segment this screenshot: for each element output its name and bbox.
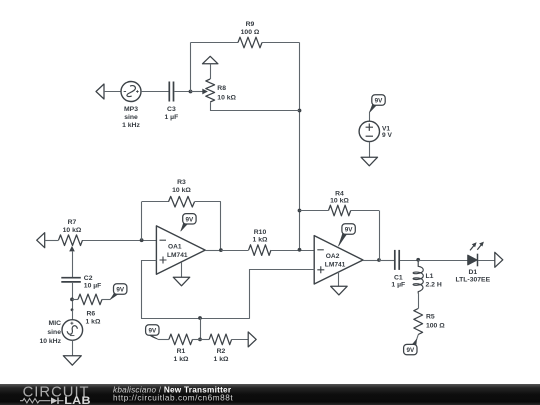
svg-text:LAB: LAB [64, 396, 91, 405]
svg-text:R5: R5 [426, 313, 435, 320]
svg-text:R6: R6 [87, 310, 96, 317]
svg-text:1 kΩ: 1 kΩ [253, 236, 268, 243]
footer bar background [0, 384, 540, 405]
terminal divider right [248, 332, 256, 347]
wire R8 wiper [191, 91, 203, 93]
node I junction R1 R2 [198, 338, 202, 342]
svg-text:R10: R10 [254, 229, 267, 236]
resistor R5 [414, 309, 423, 335]
wire node A up to R9 loop [190, 43, 192, 92]
svg-text:LM741: LM741 [167, 252, 188, 259]
inductor L1 [413, 260, 423, 294]
wire flag to R1 [158, 339, 169, 341]
resistor R10 [249, 245, 271, 256]
wire R7 wiper [72, 252, 74, 278]
svg-text:10 kHz: 10 kHz [39, 338, 61, 345]
svg-text:sine: sine [47, 329, 61, 336]
wire L1 to R5 [418, 294, 420, 309]
node F junction OA2 minus [298, 248, 302, 252]
net flag 9V V1 [369, 101, 377, 112]
svg-text:R8: R8 [217, 85, 226, 92]
ground V1 [361, 157, 378, 166]
wire right rail vertical [299, 43, 301, 250]
wire R7 output to OA1 minus [83, 240, 157, 242]
arrow R7 wiper [69, 246, 75, 252]
wire feedback top right [195, 201, 221, 203]
wire C1 to node L [400, 260, 418, 262]
resistor R9 [238, 37, 262, 48]
potentiometer R8 [206, 79, 215, 102]
capacitor C1 [394, 250, 396, 270]
resistor R4 [329, 205, 351, 216]
wire OA1 ground stem [181, 262, 183, 277]
wire OA2 ground stem [338, 272, 340, 286]
svg-text:100 Ω: 100 Ω [426, 322, 445, 329]
node D junction OA1 minus [140, 238, 144, 242]
svg-text:OA2: OA2 [326, 253, 340, 260]
net flag 9V OA2 [339, 230, 348, 246]
svg-text:9V: 9V [116, 287, 125, 294]
net flag 9V R1 [147, 331, 158, 339]
svg-text:1 kΩ: 1 kΩ [214, 356, 229, 363]
svg-text:100 Ω: 100 Ω [241, 29, 260, 36]
wire MIC to ground [72, 340, 74, 355]
node G junction OA2 out [377, 258, 381, 262]
resistor R3 [169, 196, 195, 207]
ground OA2 [331, 286, 348, 295]
wire terminal to R7 [45, 240, 59, 242]
node C junction R4 tap [298, 209, 302, 213]
node L junction output [416, 258, 420, 262]
wire R8 top [210, 64, 212, 79]
capacitor C3 [168, 82, 170, 102]
wire bottom rail [141, 318, 250, 320]
wire flag to V1 [369, 113, 371, 122]
resistor R1 [169, 334, 193, 345]
svg-text:LM741: LM741 [325, 262, 346, 269]
wire top-left to R9 [191, 42, 239, 44]
terminal R8 top [202, 56, 218, 64]
terminal output right [495, 252, 503, 267]
capacitor C2 [61, 277, 81, 279]
wire MP3 to C3 [141, 91, 169, 93]
net flag 9V OA1 [181, 220, 189, 231]
wire R4 feedback right [379, 211, 381, 261]
wire C2 to node J [72, 282, 74, 310]
wire OA2 plus input [250, 270, 315, 319]
wire R10 to OA2 minus [271, 250, 314, 252]
wire R1 to node [193, 339, 201, 341]
wire OA2 out to C1 [379, 260, 394, 262]
node B junction R8 bottom [298, 109, 302, 113]
svg-text:9V: 9V [148, 328, 157, 335]
svg-text:C1: C1 [394, 274, 403, 281]
wire OA1 output [205, 250, 221, 252]
node E junction OA1 out [219, 248, 223, 252]
wire rail to divider [200, 318, 202, 339]
logo diode symbol [51, 397, 58, 404]
svg-text:http://circuitlab.com/cn6m88t: http://circuitlab.com/cn6m88t [113, 394, 233, 403]
svg-text:sine: sine [124, 114, 138, 121]
node A junction [189, 90, 193, 94]
wire node to R2 [200, 339, 209, 341]
svg-text:2.2 H: 2.2 H [426, 281, 442, 288]
wire V1 to ground [369, 142, 371, 158]
wire OA1 out to R10 [221, 250, 249, 252]
wire R8 bottom [211, 103, 300, 111]
svg-text:C2: C2 [84, 275, 93, 282]
svg-text:R7: R7 [68, 219, 77, 226]
wire OA1 feedback right [220, 202, 222, 250]
svg-text:9 V: 9 V [382, 132, 392, 139]
svg-text:10 kΩ: 10 kΩ [330, 197, 349, 204]
wire feedback top left [142, 201, 169, 203]
logo resistor squiggle [20, 399, 51, 403]
node J junction R6 [70, 298, 74, 302]
wire R5 to flag [416, 335, 418, 341]
svg-text:9V: 9V [345, 227, 354, 234]
wire R6 right [102, 299, 110, 301]
svg-text:D1: D1 [468, 269, 477, 276]
svg-text:9V: 9V [406, 347, 415, 354]
wire R4 top left [300, 210, 329, 212]
svg-text:9V: 9V [375, 98, 384, 105]
svg-text:L1: L1 [426, 273, 434, 280]
net flag 9V R5 [411, 339, 416, 348]
svg-text:MP3: MP3 [124, 106, 138, 113]
LED D1 [468, 255, 477, 265]
node H junction rail [198, 316, 202, 320]
voltage source MP3 [121, 82, 141, 102]
svg-text:1 kΩ: 1 kΩ [174, 356, 189, 363]
svg-text:OA1: OA1 [168, 243, 182, 250]
svg-text:1 µF: 1 µF [391, 282, 405, 289]
svg-text:LTL-307EE: LTL-307EE [455, 277, 490, 284]
wire OA2 output [363, 260, 379, 262]
resistor R2 [209, 334, 231, 345]
svg-text:R9: R9 [246, 21, 255, 28]
wire D1 to terminal [478, 260, 495, 262]
svg-text:MIC: MIC [49, 320, 62, 327]
wire C3 to node A [174, 91, 190, 93]
svg-text:R2: R2 [217, 348, 226, 355]
resistor R6 [78, 294, 102, 305]
wire R9 to right rail [262, 42, 300, 44]
wire node L to D1 [418, 260, 467, 262]
ground MIC [63, 356, 81, 366]
svg-text:10 kΩ: 10 kΩ [217, 95, 236, 102]
svg-text:R1: R1 [177, 348, 186, 355]
op-amp OA2 [314, 236, 363, 284]
svg-text:1 kΩ: 1 kΩ [86, 318, 101, 325]
potentiometer R7 [59, 235, 83, 246]
svg-text:10 kΩ: 10 kΩ [63, 227, 82, 234]
node K MIC plus [71, 308, 74, 311]
op-amp OA1 [156, 226, 205, 274]
ground OA1 [173, 277, 190, 286]
wire R2 to terminal [232, 339, 249, 341]
svg-text:10 kΩ: 10 kΩ [172, 187, 191, 194]
voltage source V1 [359, 121, 379, 141]
svg-text:10 µF: 10 µF [84, 282, 102, 289]
svg-text:1 kHz: 1 kHz [122, 122, 140, 129]
wire OA1 feedback left [141, 202, 143, 241]
wire OA1 plus input [142, 261, 157, 319]
terminal input MP3 [96, 84, 104, 99]
voltage source MIC [62, 320, 83, 341]
svg-text:9V: 9V [186, 216, 195, 223]
wire R4 top right [351, 210, 379, 212]
wire R6 left [72, 299, 78, 301]
svg-text:C3: C3 [167, 106, 176, 113]
svg-text:1 µF: 1 µF [165, 114, 179, 121]
wire node to MIC [72, 310, 74, 320]
net flag 9V R6 [110, 290, 119, 299]
terminal R7 left [37, 233, 45, 248]
svg-text:R3: R3 [177, 179, 186, 186]
